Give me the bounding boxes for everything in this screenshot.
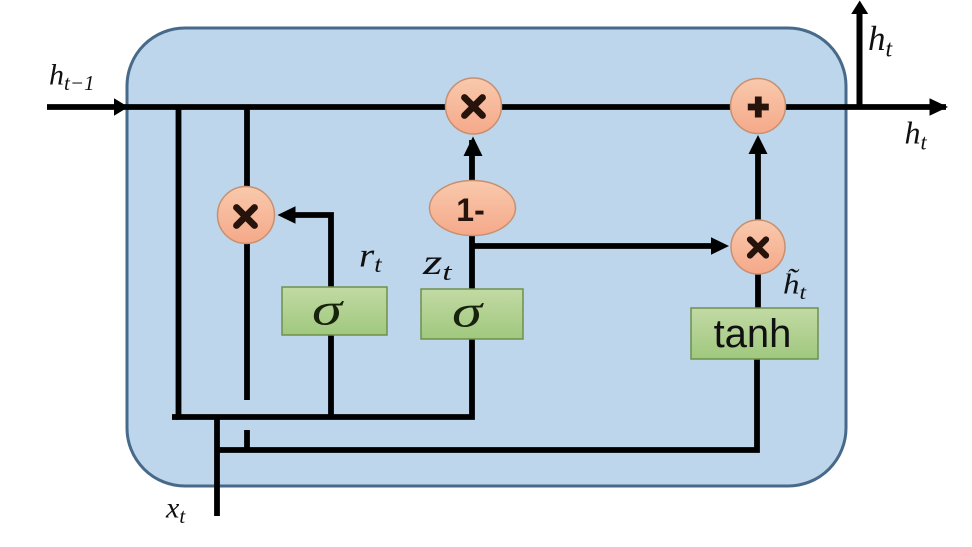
- wire: right multiply down to tanh: [755, 270, 761, 312]
- svg-text:ht−1: ht−1: [49, 59, 95, 96]
- GRU cell container box: [127, 28, 846, 486]
- wire: branch from z line to right multiply: [472, 243, 715, 249]
- wire: stub connecting reset line to line B: [244, 430, 250, 450]
- label h~_t (candidate): [783, 269, 807, 304]
- svg-text:ht: ht: [905, 115, 928, 155]
- sigma box 2 (update gate): [421, 289, 523, 339]
- svg-text:σ: σ: [312, 284, 345, 335]
- sigma box 1 (reset gate): [282, 287, 387, 335]
- wire: tanh down, line B left to x_t vertical: [217, 359, 757, 450]
- wire: x_t input vertical: [214, 415, 220, 516]
- wire: right multiply up to plus: [755, 152, 761, 222]
- arrowhead into plus: [749, 135, 768, 154]
- sigma glyph 2: [452, 286, 485, 337]
- label r_t: [359, 236, 383, 278]
- svg-text:xt: xt: [165, 492, 186, 529]
- sigma glyph 1: [312, 284, 345, 335]
- svg-text:tanh: tanh: [714, 312, 792, 356]
- multiply node right: [731, 220, 785, 274]
- x glyph right: [750, 240, 766, 256]
- wire: arrow from 1- ellipse up into top multiply: [464, 137, 483, 157]
- plus node: [731, 79, 786, 134]
- tanh box: [691, 308, 818, 359]
- x glyph left: [237, 208, 255, 226]
- arrowhead into box (h_{t-1}): [114, 98, 129, 116]
- arrowhead into right multiply: [711, 237, 729, 255]
- arrowhead up h_t: [851, 1, 868, 15]
- x glyph top: [465, 98, 483, 116]
- wire: vertical through reset-multiply: [244, 107, 250, 400]
- wire: left vertical V1 + bottom line A + z vertical: [179, 107, 473, 417]
- svg-text:ht: ht: [868, 19, 894, 63]
- label z_t: [422, 242, 453, 285]
- wire: vertical output h_t arrow: [857, 13, 863, 109]
- arrowhead into left multiply: [278, 206, 296, 224]
- wire: main horizontal h line: [47, 104, 946, 110]
- svg-text:σ: σ: [452, 286, 485, 337]
- wire: r_t line (sigma1 up to corner, left into multiply): [288, 215, 331, 420]
- multiply node left (reset): [218, 187, 275, 244]
- multiply node top (x circle): [446, 78, 502, 134]
- 1- ellipse node: [430, 181, 516, 236]
- arrowhead output h_t right: [930, 98, 949, 116]
- plus glyph: [748, 97, 769, 118]
- svg-text:1-: 1-: [456, 192, 484, 228]
